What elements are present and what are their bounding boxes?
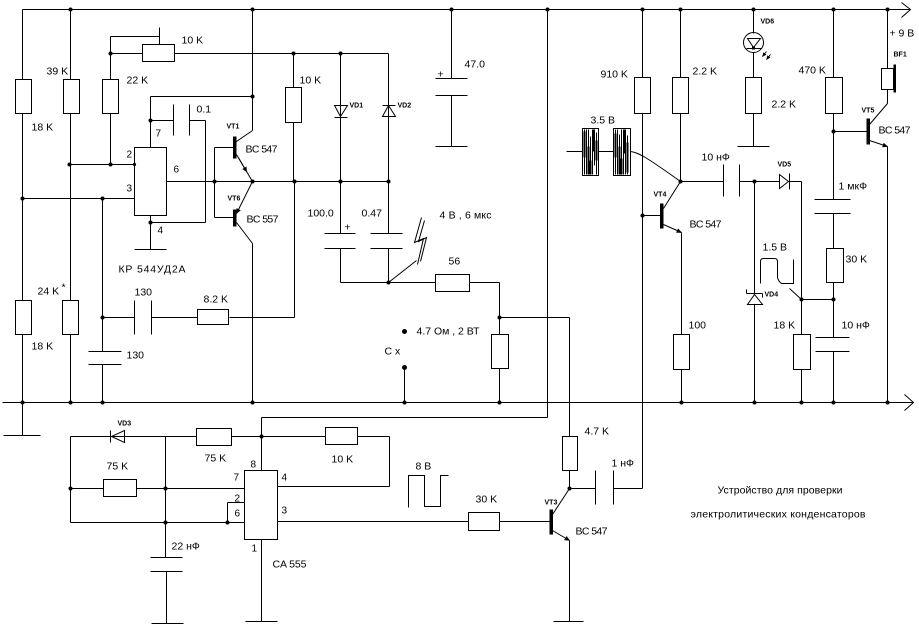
potentiometer 10K body <box>143 45 175 62</box>
ground bar 47uF <box>436 146 468 148</box>
svg-text:BC 547: BC 547 <box>879 125 911 137</box>
svg-text:Устройство для проверки: Устройство для проверки <box>718 485 843 497</box>
svg-text:75 K: 75 K <box>107 461 129 473</box>
svg-text:10 K: 10 K <box>182 35 204 47</box>
transistor VT1 <box>233 131 253 182</box>
node dot VT5 base <box>832 130 836 134</box>
transistor VT6 <box>233 182 253 244</box>
svg-text:VD5: VD5 <box>778 162 792 169</box>
svg-text:*: * <box>62 282 66 294</box>
diode VD5 <box>780 174 790 190</box>
waveform 8V square <box>409 476 449 508</box>
capacitor 1uF plates <box>815 200 851 214</box>
wire battery to node diagonal <box>614 152 681 182</box>
battery 3.5V cell 1 <box>583 129 599 176</box>
svg-text:56: 56 <box>449 256 461 268</box>
svg-text:BC 547: BC 547 <box>690 219 722 231</box>
op-amp KR544UD2A body <box>135 148 167 216</box>
svg-text:10 K: 10 K <box>300 75 322 87</box>
transistor VT3 <box>550 489 570 541</box>
svg-text:100: 100 <box>689 320 707 332</box>
svg-text:39 K: 39 K <box>47 66 69 78</box>
wire node to 4.7K column <box>500 318 570 437</box>
buzzer BF1 <box>882 65 897 93</box>
svg-text:C x: C x <box>385 346 402 358</box>
svg-text:30 K: 30 K <box>846 254 868 266</box>
svg-text:BC 547: BC 547 <box>576 526 608 538</box>
svg-text:3: 3 <box>282 506 288 517</box>
svg-text:электролитических конденсаторо: электролитических конденсаторов <box>691 509 866 521</box>
wire VD4 column <box>754 182 756 403</box>
wire 555 supply from top bus <box>262 10 548 471</box>
svg-text:22 K: 22 K <box>127 75 149 87</box>
node dots pin2 line <box>68 163 72 167</box>
node dot VT4 base <box>641 214 645 218</box>
wire 56 to 4.7ohm column <box>470 283 500 403</box>
wire pin7 vertical and top link <box>151 97 253 148</box>
wire 30K to VT3 base <box>500 521 550 523</box>
svg-text:BF1: BF1 <box>894 52 907 59</box>
resistor 39K <box>64 80 80 114</box>
wire left column 18K top <box>22 10 24 436</box>
svg-text:910 K: 910 K <box>601 69 628 81</box>
wire VT6 collector column <box>252 244 254 403</box>
transistor VT4 <box>660 182 682 233</box>
wire BF1 column <box>887 10 889 104</box>
capacitor 47.0 plates <box>436 79 468 96</box>
svg-text:2: 2 <box>127 150 133 161</box>
svg-text:18 K: 18 K <box>32 341 54 353</box>
wire 22K column top <box>110 54 112 165</box>
svg-text:4 В , 6 мкс: 4 В , 6 мкс <box>440 210 492 222</box>
wire pin6 output rail y181 <box>167 181 389 183</box>
wire 0.47 bottom stub <box>388 249 390 283</box>
wire battery left stub <box>567 151 614 153</box>
wire node181 to 10nF cap <box>681 181 755 183</box>
svg-text:8: 8 <box>251 460 257 471</box>
svg-text:130: 130 <box>127 350 145 362</box>
svg-text:1 нФ: 1 нФ <box>612 458 635 470</box>
diode VD2 <box>383 106 396 117</box>
wire VT5 emitter down <box>887 147 889 403</box>
svg-text:+: + <box>438 69 444 81</box>
wire 910K column <box>642 10 644 489</box>
node dot 555 pin8 <box>260 435 264 439</box>
wire zener node link <box>802 299 833 301</box>
svg-text:30 K: 30 K <box>476 494 498 506</box>
wire cap130h to 8.2K <box>152 317 198 319</box>
resistor 910K <box>635 78 651 114</box>
wire 47uF cap column <box>451 10 453 147</box>
pointer lightning to node <box>389 261 417 283</box>
wire inverting-node column x102 <box>102 199 104 403</box>
wire 555 pin1 ground <box>261 540 263 622</box>
svg-text:1.5 В: 1.5 В <box>763 242 788 254</box>
wire VT1/VT6 bases vertical <box>215 148 234 218</box>
svg-text:4: 4 <box>282 473 288 484</box>
wire VT3 emitter ground <box>569 541 571 622</box>
battery 3.5V cell 2 <box>614 129 631 176</box>
node dots rail y53 <box>109 52 113 56</box>
capacitor 1nF plates <box>596 471 614 505</box>
svg-text:VD3: VD3 <box>118 421 132 428</box>
wire astable loop left <box>70 437 72 523</box>
svg-text:8.2 K: 8.2 K <box>204 294 229 306</box>
wire 39K/24K column <box>70 10 72 403</box>
svg-text:VD6: VD6 <box>761 19 775 26</box>
wire pin2-6 line <box>71 522 245 524</box>
node dots top bus <box>69 8 73 12</box>
resistor 30K right <box>827 249 844 283</box>
wire VT1 collector column <box>252 10 254 131</box>
lightning bolt <box>415 218 424 265</box>
svg-text:1: 1 <box>252 544 258 555</box>
svg-text:47.0: 47.0 <box>465 59 486 71</box>
wire cap130h left link <box>103 317 135 319</box>
svg-text:4.7 Ом , 2 ВТ: 4.7 Ом , 2 ВТ <box>417 326 481 338</box>
wire top +9V bus <box>23 9 910 11</box>
resistor 470K <box>826 78 843 114</box>
node dot loop left <box>69 487 73 491</box>
svg-text:7: 7 <box>234 473 240 484</box>
svg-text:18 K: 18 K <box>774 320 796 332</box>
resistor 10K (555 reset) <box>326 428 358 445</box>
svg-text:4: 4 <box>158 226 164 237</box>
resistor 75K upper <box>197 429 232 446</box>
capacitor 22nF plates <box>151 558 183 572</box>
svg-text:470 K: 470 K <box>799 65 826 77</box>
svg-text:1 мкФ: 1 мкФ <box>839 181 868 193</box>
svg-text:22 нФ: 22 нФ <box>172 541 200 553</box>
wire Cx to bus <box>404 368 406 403</box>
svg-text:+ 9 В: + 9 В <box>890 28 915 40</box>
resistor 18K upper-left <box>16 80 32 114</box>
svg-text:VD4: VD4 <box>765 292 779 299</box>
wire opamp pin2 line <box>70 164 135 166</box>
wire loop mid vertical <box>165 437 167 523</box>
resistor 24K <box>63 301 79 335</box>
wire lower 75K branch <box>71 488 245 490</box>
ground left column <box>4 435 41 437</box>
svg-text:4.7 K: 4.7 K <box>585 426 610 438</box>
resistor 56 <box>436 275 470 292</box>
wire VT4 emitter to 100 <box>681 233 683 403</box>
svg-text:100.0: 100.0 <box>308 208 334 220</box>
node dots pin3 line <box>21 197 25 201</box>
svg-text:2.2 K: 2.2 K <box>693 66 718 78</box>
capacitor 10nF plates (VT4) <box>724 165 740 197</box>
svg-text:3.5 В: 3.5 В <box>591 115 616 127</box>
svg-text:CA 555: CA 555 <box>273 559 307 571</box>
arrow bottom bus <box>905 395 914 411</box>
capacitor 0.1 plates <box>174 105 190 136</box>
node dot pin2 step <box>226 521 230 525</box>
wire opamp pin4 ground <box>150 216 152 250</box>
resistor 100 <box>674 335 690 370</box>
svg-text:2: 2 <box>235 494 241 505</box>
wire 30K to 10nF column <box>833 283 835 403</box>
capacitor 130 vertical plates <box>89 352 122 365</box>
svg-text:24 K: 24 K <box>38 286 60 298</box>
touch plate bar <box>738 146 770 148</box>
arrow top bus <box>902 3 911 18</box>
ground VT3 emitter <box>554 621 584 623</box>
resistor 75K lower <box>104 480 137 497</box>
wire 10nF node to VD5 <box>755 181 780 183</box>
resistor 10K (VT1 load) <box>286 88 302 123</box>
resistor 8.2K <box>198 310 229 325</box>
capacitor 10nF plates (right) <box>816 338 850 352</box>
wire 2.2 touch column <box>753 114 755 147</box>
svg-text:18 K: 18 K <box>32 122 54 134</box>
IC CA555 body <box>245 471 278 540</box>
svg-text:130: 130 <box>135 287 153 299</box>
svg-text:2.2 K: 2.2 K <box>772 99 797 111</box>
resistor 2.2K (VT4) <box>673 78 689 114</box>
LED VD6 <box>744 33 771 60</box>
node dot VT4 collector <box>679 180 683 184</box>
wire 470K column <box>833 10 835 249</box>
diode VD3 <box>111 431 125 443</box>
wire rail y53 from pot to VD2 <box>111 53 389 55</box>
svg-text:BC 557: BC 557 <box>247 214 279 226</box>
svg-text:BC 547: BC 547 <box>246 144 278 156</box>
svg-text:8 В: 8 В <box>416 461 432 473</box>
wire 100.0 cap column <box>340 182 342 283</box>
wire opamp pin3 line <box>23 198 135 200</box>
wire VD5 to 18K column <box>790 182 802 403</box>
wire LED column top <box>753 10 755 78</box>
svg-text:КР 544УД2А: КР 544УД2А <box>119 264 186 276</box>
transistor VT5 <box>867 104 888 147</box>
resistor 22K <box>103 80 119 114</box>
wire 22nF column <box>166 523 167 624</box>
wire 2.2K column <box>680 10 682 182</box>
svg-text:3: 3 <box>127 184 133 195</box>
wire 555 pin3 to 30K <box>278 521 469 523</box>
svg-text:0.47: 0.47 <box>362 208 383 220</box>
node dot pin4 <box>149 221 153 225</box>
node dot zener link left <box>800 298 804 302</box>
svg-text:VT3: VT3 <box>545 500 558 507</box>
wire VD2 + 0.47 column <box>388 54 390 234</box>
node dots bottom bus <box>21 401 25 405</box>
capacitor 100.0 plates <box>325 234 356 249</box>
zener VD4 <box>747 290 763 305</box>
wire VT4 base link <box>643 215 661 217</box>
node dot 56/4.7K junction <box>498 316 502 320</box>
node dot 4.7K/1nF junction <box>568 487 572 491</box>
wire VD1 column <box>340 54 342 182</box>
svg-text:10 нФ: 10 нФ <box>842 320 870 332</box>
pointer 1.5V wave to node <box>790 289 802 300</box>
wire VT5 base line <box>834 131 867 133</box>
svg-text:7: 7 <box>156 129 162 140</box>
wire 10K reset loop <box>262 437 390 487</box>
wire 10K resistor column <box>293 54 295 182</box>
resistor 4.7ohm 2W <box>492 335 509 369</box>
wire 0.1 cap links <box>151 121 206 223</box>
wire 1nF right to 910K column <box>614 488 643 490</box>
wire pot wiper L-link <box>111 28 160 54</box>
svg-text:75 K: 75 K <box>205 453 227 465</box>
svg-text:6: 6 <box>235 509 241 520</box>
svg-text:VD2: VD2 <box>398 103 412 110</box>
wire 4.7K to 1nF node <box>570 471 596 489</box>
svg-text:VT5: VT5 <box>862 108 875 115</box>
node dot cap130 junction <box>101 316 105 320</box>
ground 22nF <box>152 623 184 625</box>
wire VD3/75K line y436 <box>71 436 262 438</box>
resistor 18K right <box>794 335 811 370</box>
resistor 30K (VT3 base) <box>469 513 500 531</box>
svg-text:10 K: 10 K <box>332 454 354 466</box>
node dot 10nF/VD5 <box>753 180 757 184</box>
resistor 4.7K <box>563 437 578 471</box>
svg-text:VT1: VT1 <box>227 124 240 131</box>
svg-text:+: + <box>345 222 351 234</box>
resistor 18K lower-left <box>16 301 32 335</box>
svg-text:VT4: VT4 <box>654 192 667 199</box>
ground 555 pin1 <box>246 621 278 623</box>
ground opamp pin4 <box>135 249 167 251</box>
resistor 2.2K (LED) <box>746 78 762 114</box>
wire pulse node to 56 <box>341 282 436 284</box>
wire bottom common bus <box>3 402 913 404</box>
terminal Cx lower <box>402 365 407 370</box>
wire pin2 step <box>228 503 245 523</box>
capacitor 130 horizontal plates <box>135 301 152 335</box>
svg-text:0.1: 0.1 <box>197 104 212 116</box>
node dots loop mid <box>164 487 168 491</box>
capacitor 0.47 plates <box>371 234 403 249</box>
waveform 1.5V pulse <box>761 259 794 284</box>
node dot 0.1 left <box>149 119 153 123</box>
node dot pin7 link <box>251 95 255 99</box>
svg-text:6: 6 <box>174 165 180 176</box>
terminal Cx upper <box>402 329 407 334</box>
node dot zener link right <box>832 298 836 302</box>
svg-text:10 нФ: 10 нФ <box>702 152 730 164</box>
diode VD1 <box>335 106 348 118</box>
node dot pulse junction <box>387 281 391 285</box>
svg-text:VD1: VD1 <box>350 103 364 110</box>
node dots rail y181 <box>213 180 217 184</box>
svg-text:VT6: VT6 <box>228 196 241 203</box>
wire 8.2K to feedback column <box>230 182 295 318</box>
